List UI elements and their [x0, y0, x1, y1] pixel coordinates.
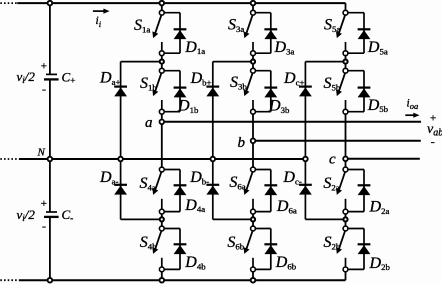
svg-text:Db-: Db- — [189, 169, 209, 186]
diode D3a branch wire — [253, 13, 271, 54]
wire clamp Da- to leg — [121, 159, 162, 219]
wire top DC rail — [17, 2, 345, 4]
pin S2b top terminal — [343, 226, 348, 231]
node c — [343, 157, 348, 162]
diode D6b — [264, 244, 277, 254]
diode D5a — [358, 29, 371, 39]
svg-text:D3b: D3b — [268, 98, 290, 115]
diode D4a branch wire — [162, 170, 180, 212]
node bottom rail / phase-a leg — [160, 278, 165, 283]
label v_ab minus — [431, 135, 435, 149]
node clamp- junction on phase-a leg — [160, 217, 164, 221]
node N (neutral / capacitor midpoint) — [48, 157, 53, 162]
svg-text:-: - — [431, 135, 435, 149]
transistor switch S6b — [244, 231, 253, 268]
wire clamp Db+ to leg — [213, 62, 253, 159]
svg-text:S1b: S1b — [140, 75, 157, 92]
diode D6b branch wire — [253, 229, 271, 270]
wire capacitor leg upper — [49, 3, 51, 74]
wire clamp Da+ to leg — [121, 62, 162, 159]
transistor switch S2a — [336, 172, 345, 210]
label v_i/2 upper — [17, 69, 36, 85]
svg-text:Da+: Da+ — [99, 70, 120, 87]
svg-text:S4b: S4b — [140, 234, 157, 251]
label Da- — [99, 169, 118, 186]
diode D1b — [174, 88, 187, 98]
label capacitor C- plus — [41, 198, 47, 210]
label Da+ — [99, 70, 120, 87]
label Dc- — [282, 169, 301, 186]
capacitor C- — [44, 212, 59, 217]
svg-text:S3b: S3b — [230, 74, 247, 91]
svg-text:D6b: D6b — [275, 254, 297, 271]
label Db+ — [190, 70, 212, 87]
svg-text:c: c — [329, 152, 336, 168]
pin S4a bottom terminal — [159, 209, 164, 214]
clamp diode Dc+ — [299, 87, 312, 97]
pin S2b bottom terminal — [343, 267, 348, 272]
pin S3b top terminal — [251, 68, 256, 73]
wire clamp Dc- to leg — [305, 159, 345, 219]
label node c — [329, 152, 336, 168]
svg-text:D6a: D6a — [276, 198, 297, 215]
svg-text:a: a — [145, 115, 153, 131]
pin S5b bottom terminal — [343, 109, 348, 114]
svg-text:S6a: S6a — [229, 174, 245, 191]
node bottom rail / capacitor — [48, 278, 53, 283]
label node b — [238, 135, 246, 151]
pin S3b bottom terminal — [251, 109, 256, 114]
svg-text:S5b: S5b — [324, 75, 341, 92]
clamp diode Dc- — [299, 185, 312, 195]
pin S4a top terminal — [159, 167, 164, 172]
label S3a — [228, 17, 244, 34]
label i_oa — [407, 98, 419, 111]
label capacitor C+ minus — [42, 82, 46, 96]
svg-text:-: - — [42, 82, 46, 96]
svg-text:Dc-: Dc- — [282, 169, 301, 186]
transistor switch S3b — [244, 73, 253, 110]
svg-text:b: b — [238, 135, 246, 151]
label N — [37, 146, 46, 158]
svg-text:N: N — [37, 146, 46, 158]
pin S6b bottom terminal — [251, 267, 256, 272]
diode D6a branch wire — [253, 170, 271, 212]
diode D1a — [174, 29, 187, 39]
label S6b — [227, 234, 244, 251]
label capacitor C+ plus — [41, 60, 47, 72]
diode D4b — [174, 244, 187, 254]
pin S5a top terminal — [343, 10, 348, 15]
label i_i — [96, 15, 102, 29]
wire phase-a leg — [161, 3, 163, 280]
diode D3b branch wire — [253, 71, 271, 112]
diode D5b — [358, 88, 371, 98]
label S4b — [140, 234, 157, 251]
wire bottom DC rail — [19, 279, 346, 281]
pin S4b top terminal — [159, 226, 164, 231]
node top rail / capacitor — [48, 1, 53, 6]
wire phase-b output line — [253, 140, 421, 142]
transistor switch S5a — [336, 15, 345, 52]
label Dc+ — [283, 70, 304, 87]
svg-text:C-: C- — [62, 207, 74, 224]
diode D1b branch wire — [162, 71, 180, 112]
transistor switch S2b — [336, 231, 345, 268]
transistor switch S1a — [152, 15, 161, 52]
label capacitor C- minus — [42, 219, 46, 233]
pin S6a bottom terminal — [251, 209, 256, 214]
clamp diode Db+ — [206, 87, 219, 97]
pin S1a bottom terminal — [159, 51, 164, 56]
transistor switch S3a — [244, 15, 253, 52]
svg-text:vi/2: vi/2 — [17, 69, 36, 85]
wire phase-c output line — [346, 158, 420, 160]
label S5a — [324, 17, 340, 34]
label node a — [145, 115, 153, 131]
svg-text:D1a: D1a — [184, 39, 205, 56]
pin S6b top terminal — [251, 226, 256, 231]
diode D4b branch wire — [162, 229, 180, 270]
label S3b — [230, 74, 247, 91]
svg-text:-: - — [42, 219, 46, 233]
label D5a — [367, 39, 388, 56]
pin S6a top terminal — [251, 167, 256, 172]
pin S1a top terminal — [159, 10, 164, 15]
diode D6a — [264, 185, 277, 195]
wire phase-a output line — [162, 121, 421, 123]
label v_ab — [427, 122, 442, 139]
node clamp+ junction on phase-b leg — [251, 60, 255, 64]
diode D4a — [174, 185, 187, 195]
pin S3a bottom terminal — [251, 51, 256, 56]
diode D2b branch wire — [346, 229, 365, 270]
svg-text:D5b: D5b — [367, 97, 389, 114]
transistor switch S6a — [244, 172, 253, 210]
clamp diode Da+ — [114, 87, 127, 97]
svg-text:Db+: Db+ — [190, 70, 212, 87]
svg-text:D2a: D2a — [369, 199, 390, 216]
diode D2a — [358, 185, 371, 195]
node a — [160, 120, 165, 125]
label D4a — [184, 197, 205, 214]
svg-text:D4a: D4a — [184, 197, 205, 214]
node neutral / clamp-c branch — [303, 157, 308, 162]
transistor switch S4a — [152, 172, 161, 210]
svg-text:C+: C+ — [62, 69, 76, 86]
clamp diode Db- — [206, 185, 219, 195]
label S2b — [324, 234, 341, 251]
svg-text:D4b: D4b — [184, 254, 206, 271]
pin S5a bottom terminal — [343, 51, 348, 56]
label D2a — [369, 199, 390, 216]
node clamp+ junction on phase-c leg — [343, 60, 347, 64]
svg-text:D1b: D1b — [177, 98, 199, 115]
transistor switch S5b — [336, 73, 345, 110]
label v_i/2 lower — [17, 207, 36, 223]
wire phase-c leg — [345, 3, 347, 280]
node b — [251, 139, 256, 144]
svg-text:S2a: S2a — [323, 175, 339, 192]
svg-text:S6b: S6b — [227, 234, 244, 251]
transistor switch S1b — [152, 73, 161, 110]
label D5b — [367, 97, 389, 114]
svg-text:D2b: D2b — [369, 255, 391, 272]
label S1a — [134, 17, 150, 34]
label D3b — [268, 98, 290, 115]
diode D2b — [358, 244, 371, 254]
pin S3a top terminal — [251, 10, 256, 15]
node top rail / phase-b leg — [251, 1, 256, 6]
node top rail / phase-a leg — [160, 1, 165, 6]
label S1b — [140, 75, 157, 92]
diode D1a branch wire — [162, 13, 180, 54]
wire neutral rail N — [19, 158, 305, 160]
wire phase-b leg — [252, 3, 254, 280]
label C- — [62, 207, 74, 224]
diode D2a branch wire — [346, 170, 365, 212]
node clamp- junction on phase-b leg — [251, 217, 255, 221]
label D1b — [177, 98, 199, 115]
node neutral / clamp-b branch — [211, 157, 216, 162]
arrow input current i_i — [93, 9, 110, 14]
label Db- — [189, 169, 209, 186]
pin S2a top terminal — [343, 167, 348, 172]
diode D5b branch wire — [346, 71, 365, 112]
pin S5b top terminal — [343, 68, 348, 73]
arrow output current i_oa — [405, 113, 419, 118]
svg-text:ii: ii — [96, 15, 102, 29]
label C+ — [62, 69, 76, 86]
wire bottom DC rail (dotted lead-in) — [0, 279, 19, 281]
label D6a — [276, 198, 297, 215]
svg-text:Dc+: Dc+ — [283, 70, 304, 87]
pin S1b top terminal — [159, 68, 164, 73]
svg-text:S3a: S3a — [228, 17, 244, 34]
svg-text:D5a: D5a — [367, 39, 388, 56]
node clamp+ junction on phase-a leg — [160, 60, 164, 64]
label S4a — [140, 175, 156, 192]
svg-text:Da-: Da- — [99, 169, 118, 186]
wire capacitor leg middle upper — [49, 79, 51, 159]
pin S2a bottom terminal — [343, 209, 348, 214]
label S5b — [324, 75, 341, 92]
svg-text:vi/2: vi/2 — [17, 207, 36, 223]
wire clamp Dc+ to leg — [305, 62, 345, 159]
svg-text:ioa: ioa — [407, 98, 419, 111]
wire neutral rail (dotted lead-in) — [0, 158, 19, 160]
diode D5a branch wire — [346, 13, 365, 54]
svg-text:S1a: S1a — [134, 17, 150, 34]
svg-text:S4a: S4a — [140, 175, 156, 192]
diode D3b — [264, 88, 277, 98]
pin S1b bottom terminal — [159, 109, 164, 114]
node bottom rail / phase-b leg — [251, 278, 256, 283]
capacitor C+ — [44, 74, 59, 79]
label S6a — [229, 174, 245, 191]
label D3a — [274, 39, 295, 56]
label v_ab plus — [430, 113, 436, 125]
diode D3a — [264, 29, 277, 39]
label D1a — [184, 39, 205, 56]
label S2a — [323, 175, 339, 192]
pin S4b bottom terminal — [159, 267, 164, 272]
node clamp- junction on phase-c leg — [343, 217, 347, 221]
wire capacitor leg lower — [49, 217, 51, 280]
wire top DC rail (dotted lead-in) — [0, 2, 17, 4]
wire clamp Db- to leg — [213, 159, 253, 219]
svg-text:+: + — [41, 198, 47, 210]
svg-text:D3a: D3a — [274, 39, 295, 56]
label D2b — [369, 255, 391, 272]
svg-text:S5a: S5a — [324, 17, 340, 34]
transistor switch S4b — [152, 231, 161, 268]
wire capacitor leg middle lower — [49, 159, 51, 212]
label D6b — [275, 254, 297, 271]
label D4b — [184, 254, 206, 271]
svg-text:S2b: S2b — [324, 234, 341, 251]
svg-text:+: + — [41, 60, 47, 72]
node neutral / clamp-a branch — [118, 157, 123, 162]
clamp diode Da- — [114, 185, 127, 195]
